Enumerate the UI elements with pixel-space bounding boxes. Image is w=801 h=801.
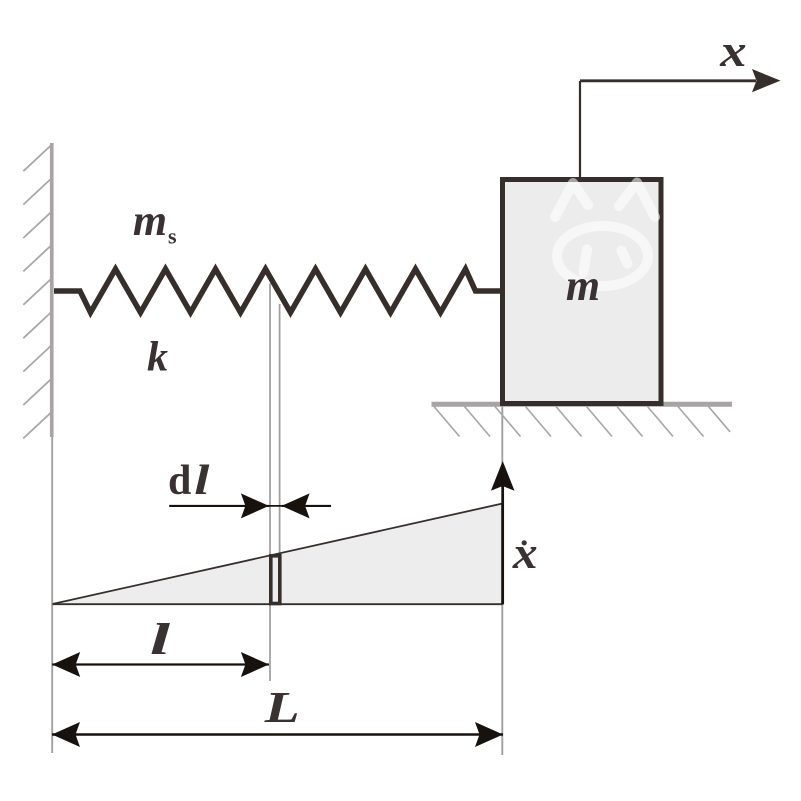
- velocity triangle fill: [53, 504, 503, 605]
- xdot dot: [522, 540, 527, 545]
- x axis arrowhead: [752, 69, 781, 92]
- triangle right edge: [501, 504, 504, 605]
- svg-text:x: x: [719, 25, 746, 76]
- svg-text:L: L: [264, 684, 300, 732]
- xdot arrow shaft: [501, 486, 504, 604]
- triangle hypotenuse: [53, 504, 503, 605]
- ground hatching: [434, 407, 730, 437]
- triangle base line: [53, 603, 503, 605]
- xdot arrowhead: [491, 461, 515, 491]
- svg-text:l: l: [194, 457, 210, 504]
- dimension L left arrowhead: [52, 722, 80, 747]
- dl left arrowhead: [241, 493, 269, 518]
- dl right arrow line: [282, 505, 331, 507]
- mass block m: [503, 180, 662, 404]
- svg-text:l: l: [150, 615, 171, 663]
- wall hatching: [23, 144, 53, 439]
- wall: [50, 143, 54, 437]
- svg-text:m: m: [133, 196, 167, 245]
- dl left arrow line: [169, 505, 281, 507]
- dimension L line: [52, 733, 503, 736]
- watermark pig face: [555, 183, 655, 287]
- svg-text:m: m: [566, 261, 600, 310]
- svg-text:k: k: [147, 335, 168, 381]
- node guide line left (x=52): [51, 437, 53, 753]
- spring k: [54, 269, 501, 313]
- x axis line: [580, 79, 756, 82]
- strip element dl: [271, 556, 280, 604]
- dimension L right arrowhead: [475, 722, 503, 747]
- node guide line right (x=502): [501, 406, 503, 755]
- svg-text:s: s: [168, 224, 177, 249]
- dimension l left arrowhead: [52, 652, 80, 677]
- dimension l line: [52, 663, 269, 665]
- node guide line strip-left (x=270): [269, 284, 271, 682]
- node guide line strip-right (x=279.6): [279, 304, 281, 604]
- dimension l right arrowhead: [241, 652, 269, 677]
- svg-text:d: d: [168, 458, 191, 504]
- ground: [432, 402, 733, 407]
- x axis vertical lead: [579, 81, 581, 177]
- svg-text:x: x: [512, 529, 538, 578]
- dl right arrowhead: [282, 493, 310, 518]
